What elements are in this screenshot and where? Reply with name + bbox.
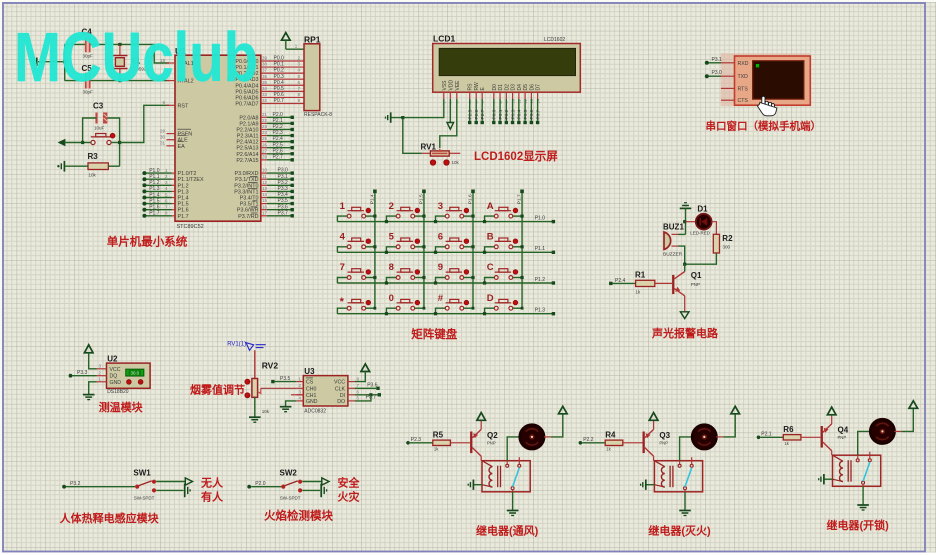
wire P0.3 (pin 36) to RP1 pin 5 xyxy=(261,78,304,80)
resistor R3 10k xyxy=(88,163,108,170)
ground left of relay 开锁 xyxy=(823,474,825,484)
svg-text:P1.3: P1.3 xyxy=(149,186,160,192)
svg-text:P1.5: P1.5 xyxy=(149,198,160,204)
relay 灭火 contacts xyxy=(678,464,681,467)
svg-text:RESPACK-8: RESPACK-8 xyxy=(304,112,332,118)
wire node to RST pin xyxy=(120,105,169,142)
svg-text:继电器(通风): 继电器(通风) xyxy=(476,524,539,538)
keypad button B xyxy=(494,245,498,249)
svg-text:P0.2: P0.2 xyxy=(504,109,510,119)
serial pin TXD xyxy=(721,75,735,77)
svg-text:SW1: SW1 xyxy=(133,469,151,478)
keypad column wire P1.5 xyxy=(423,191,425,308)
capacitor C4 xyxy=(85,37,87,53)
svg-text:P2.6: P2.6 xyxy=(474,109,480,119)
keypad row bus P1.3 xyxy=(337,313,553,315)
svg-text:MCUclub: MCUclub xyxy=(14,18,258,96)
svg-text:烟雾值调节: 烟雾值调节 xyxy=(190,383,245,397)
wire SW1 throw1 to arrow xyxy=(156,481,185,483)
svg-text:火焰检测模块: 火焰检测模块 xyxy=(264,509,333,523)
wire XTAL bottom net (C5 / X1 / XTAL2) xyxy=(65,80,85,82)
svg-text:RP1: RP1 xyxy=(304,34,321,44)
terminal P0.3 (LCD D3) xyxy=(512,99,514,121)
svg-text:P1.3: P1.3 xyxy=(178,189,189,195)
LCD pin 10 D3 xyxy=(512,92,514,99)
svg-text:6: 6 xyxy=(438,232,443,243)
svg-text:P3.1: P3.1 xyxy=(278,174,289,180)
svg-text:P0.3: P0.3 xyxy=(510,109,516,119)
wire XTAL top net (C4 / X1 / XTAL1) xyxy=(38,61,65,63)
wire relay 开锁 coil to ground xyxy=(825,478,833,480)
svg-text:P3.5: P3.5 xyxy=(278,198,289,204)
svg-text:P1.5: P1.5 xyxy=(418,194,424,204)
LCD1 LM016L display xyxy=(433,44,581,93)
keypad button C xyxy=(494,276,498,280)
svg-text:P3.3: P3.3 xyxy=(77,370,88,376)
svg-text:安全: 安全 xyxy=(338,475,361,489)
wire P0.0 (pin 39) to RP1 pin 2 xyxy=(261,60,304,62)
switch SW2 SW-SPDT xyxy=(281,485,285,489)
svg-text:人体热释电感应模块: 人体热释电感应模块 xyxy=(60,511,160,525)
svg-text:*: * xyxy=(340,296,345,308)
power arrow at Q3 emitter xyxy=(649,413,658,421)
terminal P3.6 to CLK xyxy=(355,387,376,389)
resistor R4 1k xyxy=(605,440,623,445)
wire relay 灭火 common to motor xyxy=(680,437,693,461)
svg-text:U3: U3 xyxy=(304,367,315,376)
svg-text:继电器(灭火): 继电器(灭火) xyxy=(648,524,711,538)
svg-text:P3.0: P3.0 xyxy=(278,168,289,174)
output arrow SW1 throw1 xyxy=(185,478,192,485)
svg-text:D2: D2 xyxy=(504,84,510,91)
terminal P3.1 to RXD xyxy=(709,62,722,64)
svg-text:#: # xyxy=(438,293,444,304)
ground left of relay 灭火 xyxy=(645,480,647,490)
terminal P3.6 (pin 16) xyxy=(261,209,267,211)
keypad button 8 xyxy=(396,276,400,280)
pin 2 P1.1 with terminal xyxy=(172,178,175,180)
terminal P2.5 (pin 26) xyxy=(261,147,267,149)
svg-text:TXD: TXD xyxy=(738,74,749,80)
terminal P3.2 (pin 12) xyxy=(261,184,267,186)
svg-text:P1.7: P1.7 xyxy=(178,214,189,220)
svg-text:P1.1/T2EX: P1.1/T2EX xyxy=(178,177,204,183)
ground left of R3 xyxy=(65,165,88,167)
svg-text:P3.7: P3.7 xyxy=(366,395,377,401)
serial pin RXD xyxy=(721,62,735,64)
resistor R6 1k xyxy=(783,435,801,440)
terminal P0.2 (LCD D2) xyxy=(505,99,507,121)
keypad button 7 xyxy=(347,276,351,280)
svg-text:10k: 10k xyxy=(89,173,97,178)
svg-text:CTS: CTS xyxy=(738,98,749,104)
svg-text:P1.2: P1.2 xyxy=(149,180,160,186)
svg-text:RXD: RXD xyxy=(738,61,749,67)
keypad button 9 xyxy=(445,276,449,280)
wire P0.7 (pin 32) to RP1 pin 9 xyxy=(261,102,304,104)
svg-text:RST: RST xyxy=(178,103,189,109)
svg-text:LCD1: LCD1 xyxy=(433,34,455,44)
svg-text:P0.7: P0.7 xyxy=(535,109,541,119)
svg-text:VCC: VCC xyxy=(334,380,345,386)
svg-text:DO: DO xyxy=(337,399,345,405)
keypad button # xyxy=(445,306,449,310)
keypad button 3 xyxy=(445,214,449,218)
pin 4 P1.3 with terminal xyxy=(172,190,175,192)
svg-text:D3: D3 xyxy=(511,84,517,91)
motor 通风 xyxy=(520,425,544,449)
ground below relay 通风 xyxy=(507,510,519,512)
ground above buzzer xyxy=(680,207,692,209)
relay 通风 xyxy=(482,461,530,492)
U3 pin 6 DI xyxy=(348,394,355,396)
MCU U1 STC89C52 xyxy=(175,55,261,221)
svg-text:31: 31 xyxy=(160,141,166,146)
svg-text:P3.2: P3.2 xyxy=(278,180,289,186)
svg-text:P0.6: P0.6 xyxy=(529,109,535,119)
svg-text:P3.6: P3.6 xyxy=(278,204,289,210)
svg-text:34: 34 xyxy=(262,86,268,91)
resistor R1 1k xyxy=(636,280,655,286)
svg-text:P1.4: P1.4 xyxy=(149,192,160,198)
LED D1 LED-RED xyxy=(686,221,698,223)
svg-text:DI: DI xyxy=(340,393,345,399)
svg-text:22: 22 xyxy=(262,118,268,123)
terminal P2.6 (pin 27) xyxy=(261,153,267,155)
svg-text:CLK: CLK xyxy=(335,386,346,392)
terminal P2.2 xyxy=(579,441,583,445)
wire SW2 throw2 to ground xyxy=(302,489,320,491)
keypad button 1 xyxy=(347,214,351,218)
ADC U3 ADC0832 xyxy=(303,376,348,406)
svg-text:LCD1602: LCD1602 xyxy=(544,37,565,43)
power arrow at motor 灭火 xyxy=(731,406,740,414)
ground at SW2 throw2 xyxy=(320,484,322,498)
svg-text:P1.6: P1.6 xyxy=(149,205,160,211)
relay 通风 contacts xyxy=(506,464,509,467)
svg-text:0: 0 xyxy=(389,293,394,304)
terminal P2.0 xyxy=(247,485,251,489)
power arrow for U3 VCC xyxy=(361,364,370,372)
pin 5 P1.4 with terminal xyxy=(172,197,175,199)
LCD pin 5 RW xyxy=(475,92,477,99)
svg-text:P0.0: P0.0 xyxy=(492,109,498,119)
wire SW2 throw1 to arrow xyxy=(302,481,321,483)
U3 CH1 stub xyxy=(291,394,303,396)
keypad button A xyxy=(494,214,498,218)
wire motor 灭火 to power xyxy=(716,436,723,438)
power arrow at motor 开锁 xyxy=(909,401,918,409)
node LED/ground junction xyxy=(683,220,686,223)
svg-text:矩阵键盘: 矩阵键盘 xyxy=(411,327,457,341)
svg-text:P2.7: P2.7 xyxy=(273,154,284,160)
wire LCD VSS to ground xyxy=(392,99,444,118)
terminal P2.3 (pin 24) xyxy=(261,135,267,137)
wire R1 to Q1 base xyxy=(655,282,672,284)
push button reset xyxy=(91,140,95,144)
svg-text:D1: D1 xyxy=(498,84,504,91)
resistor R5 1k xyxy=(433,440,451,445)
svg-text:P1.2: P1.2 xyxy=(178,183,189,189)
terminal P2.5 (LCD RS) xyxy=(469,99,471,121)
terminal P3.5 to CS xyxy=(275,381,297,383)
keypad button * xyxy=(347,306,351,310)
terminal P0.7 (LCD D7) xyxy=(537,99,539,121)
svg-text:10k: 10k xyxy=(452,160,460,165)
svg-text:PSEN: PSEN xyxy=(178,132,193,138)
svg-text:DS18B20: DS18B20 xyxy=(107,389,129,395)
terminal P3.3 to DQ xyxy=(72,375,96,377)
svg-text:P1.4: P1.4 xyxy=(178,196,189,202)
svg-text:VSS: VSS xyxy=(442,80,448,91)
pin 29 PSEN xyxy=(167,133,176,135)
svg-text:RTS: RTS xyxy=(738,86,749,92)
svg-text:21: 21 xyxy=(262,112,268,117)
keypad button 5 xyxy=(396,245,400,249)
pin 1 P1.0 with terminal xyxy=(172,172,175,174)
svg-text:D4: D4 xyxy=(517,84,523,91)
svg-text:5: 5 xyxy=(389,232,395,243)
svg-text:P3.6: P3.6 xyxy=(367,382,378,388)
svg-text:STC89C52: STC89C52 xyxy=(177,224,204,230)
LCD pin 12 D5 xyxy=(524,92,526,99)
LCD pin 11 D4 xyxy=(518,92,520,99)
svg-text:RV2: RV2 xyxy=(262,361,279,371)
U3 pin 1 CS xyxy=(296,381,303,383)
svg-text:D5: D5 xyxy=(523,84,529,91)
motor 灭火 xyxy=(692,425,716,449)
svg-text:DQ: DQ xyxy=(110,374,118,380)
capacitor C3 (electrolytic 10uF) xyxy=(95,113,97,124)
svg-text:PNP: PNP xyxy=(838,435,847,440)
wire P3.2 to switch xyxy=(66,486,135,488)
resistor R2 300 xyxy=(713,234,719,253)
wire P0.2 (pin 37) to RP1 pin 4 xyxy=(261,72,304,74)
svg-text:P1.6: P1.6 xyxy=(178,208,189,214)
svg-text:R2: R2 xyxy=(722,234,733,243)
svg-text:P1.7: P1.7 xyxy=(517,194,523,204)
svg-text:R5: R5 xyxy=(433,431,444,440)
svg-text:D7: D7 xyxy=(536,84,542,91)
wire motor 开锁 to power xyxy=(894,430,901,432)
pin 18 XTAL2 xyxy=(167,80,176,82)
svg-text:B: B xyxy=(487,232,494,243)
svg-text:CH1: CH1 xyxy=(306,393,316,399)
ground below RV2 xyxy=(249,416,261,418)
svg-text:1k: 1k xyxy=(636,290,642,295)
wire P2.2 to R4 xyxy=(582,442,605,444)
U3 pin 3 CH1 xyxy=(296,394,303,396)
LCD pin 7 D0 xyxy=(493,92,495,99)
terminal P3.0 to TXD xyxy=(709,75,722,77)
svg-text:R6: R6 xyxy=(783,425,794,434)
pin 6 P1.5 with terminal xyxy=(172,203,175,205)
svg-text:U2: U2 xyxy=(107,354,118,363)
keypad column wire P1.7 xyxy=(521,191,523,308)
svg-text:LED-RED: LED-RED xyxy=(690,231,711,236)
power arrow at Q2 emitter xyxy=(477,413,486,421)
U3 pin 5 DO xyxy=(348,400,355,402)
svg-text:2: 2 xyxy=(389,201,394,212)
relay 开锁 xyxy=(833,455,881,486)
wire P0.1 (pin 38) to RP1 pin 3 xyxy=(261,66,304,68)
relay 开锁 contacts xyxy=(856,459,859,462)
svg-text:P1.5: P1.5 xyxy=(178,202,189,208)
svg-text:1: 1 xyxy=(340,201,346,212)
svg-text:30: 30 xyxy=(160,135,166,140)
svg-text:R4: R4 xyxy=(605,431,616,440)
wire R3 right to node RST xyxy=(108,165,119,167)
svg-text:继电器(开锁): 继电器(开锁) xyxy=(827,518,890,532)
wire P2.0 to switch xyxy=(251,486,281,488)
svg-text:13: 13 xyxy=(262,186,268,191)
svg-text:P1.3: P1.3 xyxy=(535,308,546,314)
LCD pin 4 RS xyxy=(469,92,471,99)
terminal P3.1 (pin 11) xyxy=(261,178,267,180)
svg-text:SW-SPDT: SW-SPDT xyxy=(134,495,155,500)
wire P0.4 (pin 35) to RP1 pin 6 xyxy=(261,84,304,86)
svg-text:P3.5: P3.5 xyxy=(280,376,291,382)
U2 pin 2 DQ xyxy=(97,375,107,377)
wire Q2 collector to relay coil xyxy=(480,456,482,461)
wire relay 通风 coil to ground xyxy=(474,484,482,486)
svg-text:P1.4: P1.4 xyxy=(369,194,375,204)
svg-text:24: 24 xyxy=(262,130,268,135)
wire reset button right / node RST xyxy=(111,142,119,144)
terminal P2.3 xyxy=(406,441,410,445)
wire LED to R2 xyxy=(712,222,717,235)
U3 pin 2 CH0 xyxy=(296,387,303,389)
LCD pin 8 D1 xyxy=(499,92,501,99)
svg-text:P1.0: P1.0 xyxy=(535,215,546,221)
svg-text:P0.5: P0.5 xyxy=(523,109,529,119)
svg-text:P0.7: P0.7 xyxy=(274,98,285,104)
power arrow at Q4 emitter xyxy=(827,407,836,415)
terminal P3.2 xyxy=(62,485,66,489)
ground for LCD VSS xyxy=(390,112,392,122)
svg-text:33: 33 xyxy=(262,92,268,97)
wire R6 to Q4 base xyxy=(801,436,821,438)
terminal P3.0 (pin 10) xyxy=(261,172,267,174)
svg-text:C3: C3 xyxy=(93,102,104,111)
ground left of relay 通风 xyxy=(472,480,474,490)
power arrow for RP1 xyxy=(282,33,291,41)
svg-text:EA: EA xyxy=(178,144,186,150)
svg-text:15: 15 xyxy=(262,198,268,203)
keypad row bus P1.2 xyxy=(337,282,553,284)
LCD pin 6 E xyxy=(481,92,483,99)
potentiometer RV1 10k xyxy=(403,118,422,154)
crystal X1 xyxy=(119,44,121,55)
svg-text:P1.2: P1.2 xyxy=(535,277,546,283)
wire U2 GND to ground xyxy=(89,382,97,394)
power down-arrow LCD VDD xyxy=(449,99,451,122)
svg-text:29: 29 xyxy=(160,128,166,133)
svg-text:LCD1602显示屏: LCD1602显示屏 xyxy=(474,150,558,163)
switch SW1 SW-SPDT xyxy=(135,485,139,489)
terminal P2.1 (pin 22) xyxy=(261,122,267,124)
ground arrow left of reset xyxy=(59,139,66,145)
svg-text:R1: R1 xyxy=(635,271,646,280)
svg-text:Q3: Q3 xyxy=(659,431,670,440)
wire SW1 throw2 to ground xyxy=(156,489,183,491)
svg-text:火灾: 火灾 xyxy=(338,490,361,504)
svg-text:12: 12 xyxy=(262,180,268,185)
wire Q4 collector to relay coil xyxy=(831,451,833,456)
LCD pin 3 VEE xyxy=(456,92,458,99)
svg-text:35: 35 xyxy=(262,80,268,85)
svg-text:38: 38 xyxy=(262,62,268,67)
wire relay 通风 NO contact to ground xyxy=(512,490,514,492)
svg-text:P2.5: P2.5 xyxy=(468,109,474,119)
svg-text:P3.7: P3.7 xyxy=(278,210,289,216)
svg-text:R3: R3 xyxy=(88,152,99,161)
serial pin RTS xyxy=(721,87,735,89)
svg-text:P0.1: P0.1 xyxy=(498,109,504,119)
pin 19 XTAL1 xyxy=(167,62,176,64)
svg-text:27: 27 xyxy=(262,148,268,153)
svg-text:D: D xyxy=(487,293,494,304)
svg-text:10k: 10k xyxy=(262,409,270,414)
svg-text:RS: RS xyxy=(468,83,474,91)
virtual terminal (serial window) xyxy=(721,53,811,106)
svg-text:36: 36 xyxy=(262,74,268,79)
svg-text:P3.0: P3.0 xyxy=(712,70,723,76)
LCD pin 14 D7 xyxy=(537,92,539,99)
transistor Q3 PNP xyxy=(643,432,645,454)
wire DI/DO loop to terminal P3.7 xyxy=(355,394,378,396)
wire motor 通风 to power xyxy=(544,436,551,438)
terminal P2.0 (pin 21) xyxy=(261,116,267,118)
svg-text:P3.3/INT1: P3.3/INT1 xyxy=(234,189,258,195)
svg-text:P2.7/A15: P2.7/A15 xyxy=(236,158,258,164)
svg-text:Q2: Q2 xyxy=(487,431,498,440)
svg-text:VCC: VCC xyxy=(110,367,121,373)
svg-text:串口窗口（模拟手机端）: 串口窗口（模拟手机端） xyxy=(706,120,822,133)
svg-text:RV1: RV1 xyxy=(421,143,437,152)
wire LCD VEE to RV1 wiper xyxy=(440,99,457,148)
svg-text:C: C xyxy=(487,262,494,273)
temperature sensor U2 DS18B20 xyxy=(107,363,151,388)
terminal P3.7 (pin 17) xyxy=(261,215,267,217)
wire relay 灭火 coil to ground xyxy=(646,484,654,486)
svg-text:P1.1: P1.1 xyxy=(149,174,160,180)
wire relay 开锁 NO contact to ground xyxy=(862,484,864,486)
U3 pin 7 CLK xyxy=(348,387,355,389)
svg-text:P3.3: P3.3 xyxy=(278,186,289,192)
svg-text:A: A xyxy=(487,201,494,212)
ground below relay 灭火 xyxy=(679,510,691,512)
pin 30 ALE xyxy=(167,139,176,141)
wire RV2 bottom to ground xyxy=(254,397,256,416)
svg-text:PNP: PNP xyxy=(691,282,700,287)
keypad row bus P1.0 xyxy=(337,221,553,223)
svg-text:单片机最小系统: 单片机最小系统 xyxy=(107,235,188,249)
wire U3 GND to ground xyxy=(286,401,297,406)
node XTAL2 junction xyxy=(118,79,121,82)
potentiometer RV2 10k xyxy=(254,350,256,378)
transistor Q1 PNP xyxy=(672,275,674,294)
svg-text:GND: GND xyxy=(110,380,122,386)
power down-arrow at Q1 emitter xyxy=(680,312,689,319)
wire R4 to Q3 base xyxy=(623,442,643,444)
wire buzzer top to ground stem xyxy=(672,233,679,235)
keypad column wire P1.6 xyxy=(472,191,474,308)
svg-text:11: 11 xyxy=(262,174,267,179)
keypad button 6 xyxy=(445,245,449,249)
ground at SW1 throw2 xyxy=(184,484,186,498)
wire P0.6 (pin 33) to RP1 pin 8 xyxy=(261,96,304,98)
